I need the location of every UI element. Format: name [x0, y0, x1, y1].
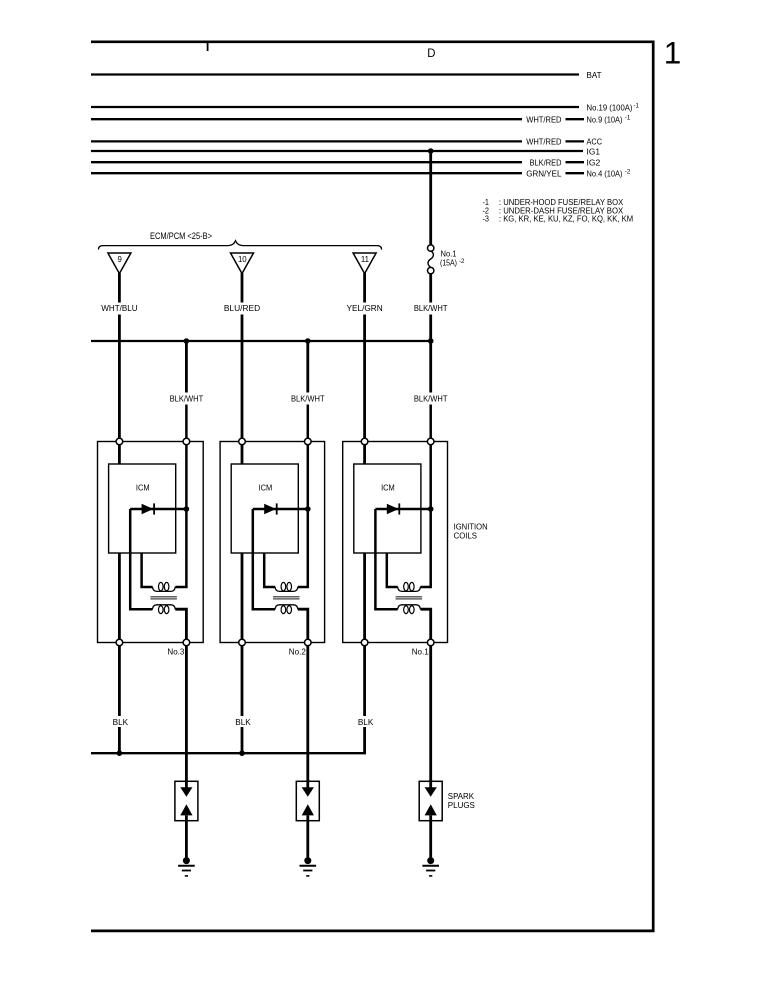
svg-text:No.1: No.1: [412, 647, 429, 657]
svg-text:ICM: ICM: [259, 483, 273, 493]
svg-text:-2: -2: [459, 258, 465, 265]
svg-text:9: 9: [118, 255, 122, 264]
svg-text:No.4 (10A): No.4 (10A): [587, 169, 623, 179]
svg-text:11: 11: [361, 255, 369, 264]
svg-text:BLK/WHT: BLK/WHT: [414, 303, 448, 313]
svg-text:BLK/WHT: BLK/WHT: [291, 394, 325, 404]
svg-text:GRN/YEL: GRN/YEL: [526, 169, 562, 179]
svg-text:10: 10: [238, 255, 247, 264]
svg-text:-3: -3: [483, 214, 490, 224]
svg-text::: :: [499, 214, 501, 224]
svg-text:(15A): (15A): [440, 258, 457, 268]
svg-text:BLK/RED: BLK/RED: [530, 158, 562, 168]
svg-text:YEL/GRN: YEL/GRN: [346, 303, 382, 313]
svg-text:IG2: IG2: [587, 158, 601, 168]
svg-text:BLK/WHT: BLK/WHT: [414, 394, 448, 404]
svg-text:BAT: BAT: [587, 70, 603, 80]
svg-text:No.19 (100A): No.19 (100A): [587, 102, 633, 112]
svg-text:-1: -1: [634, 103, 640, 110]
svg-text:ECM/PCM <25-B>: ECM/PCM <25-B>: [150, 231, 212, 241]
svg-text:ICM: ICM: [381, 483, 395, 493]
svg-text:IG1: IG1: [587, 146, 601, 156]
svg-text:WHT/RED: WHT/RED: [526, 115, 561, 125]
svg-text:-1: -1: [625, 115, 631, 122]
svg-text:COILS: COILS: [454, 530, 478, 540]
svg-text:No.3: No.3: [167, 647, 184, 657]
svg-text:WHT/BLU: WHT/BLU: [101, 303, 137, 313]
svg-text:No.2: No.2: [289, 647, 306, 657]
svg-text:BLK/WHT: BLK/WHT: [170, 394, 204, 404]
svg-text:1: 1: [664, 35, 682, 71]
svg-text:BLK: BLK: [113, 717, 129, 727]
svg-text:KG, KR, KE, KU, KZ, FO, KQ, KK: KG, KR, KE, KU, KZ, FO, KQ, KK, KM: [503, 214, 633, 224]
svg-text:ICM: ICM: [136, 483, 150, 493]
svg-text:No.9 (10A): No.9 (10A): [587, 115, 623, 125]
svg-text:BLU/RED: BLU/RED: [224, 303, 260, 313]
svg-text:PLUGS: PLUGS: [448, 800, 475, 810]
svg-text:ACC: ACC: [587, 137, 603, 147]
svg-text:D: D: [427, 46, 436, 60]
svg-text:BLK: BLK: [235, 717, 251, 727]
svg-text:-2: -2: [625, 169, 631, 176]
svg-text:WHT/RED: WHT/RED: [526, 137, 561, 147]
svg-text:BLK: BLK: [358, 717, 374, 727]
